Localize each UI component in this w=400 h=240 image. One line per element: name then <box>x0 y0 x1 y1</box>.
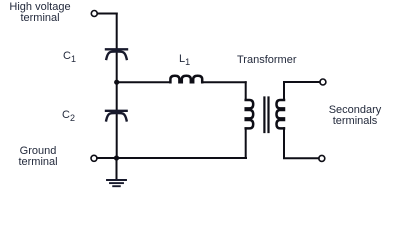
ground symbol <box>107 180 126 186</box>
wire secondary bottom <box>284 128 319 158</box>
transformer core <box>264 98 268 133</box>
capacitor C1 <box>106 49 127 59</box>
secondary terminal bottom circle <box>319 155 325 161</box>
wire top horizontal <box>97 13 116 15</box>
ground terminal circle <box>91 155 97 161</box>
high voltage terminal circle <box>91 11 97 17</box>
label: C1 <box>63 51 76 65</box>
wire primary bottom vertical <box>245 128 247 158</box>
label: High voltage terminal <box>8 2 72 23</box>
wire primary top vertical <box>245 82 247 100</box>
node junction upper <box>114 80 119 85</box>
wire inductor to transformer <box>202 81 246 83</box>
wire main vertical <box>116 14 118 159</box>
label: Transformer <box>237 55 297 66</box>
wire to ground <box>116 158 118 179</box>
secondary terminal top circle <box>320 79 326 85</box>
label: Secondary terminals <box>323 105 387 126</box>
wire secondary top <box>284 82 320 100</box>
wire bottom horizontal <box>97 157 246 159</box>
transformer primary winding <box>246 100 254 128</box>
label: C2 <box>62 110 75 124</box>
inductor L1 <box>170 76 202 83</box>
label: L1 <box>179 54 190 68</box>
transformer secondary winding <box>277 100 285 128</box>
wire junction to inductor <box>117 81 171 83</box>
node junction lower <box>114 155 119 160</box>
capacitor C2 <box>106 111 127 121</box>
label: Ground terminal <box>6 146 70 167</box>
